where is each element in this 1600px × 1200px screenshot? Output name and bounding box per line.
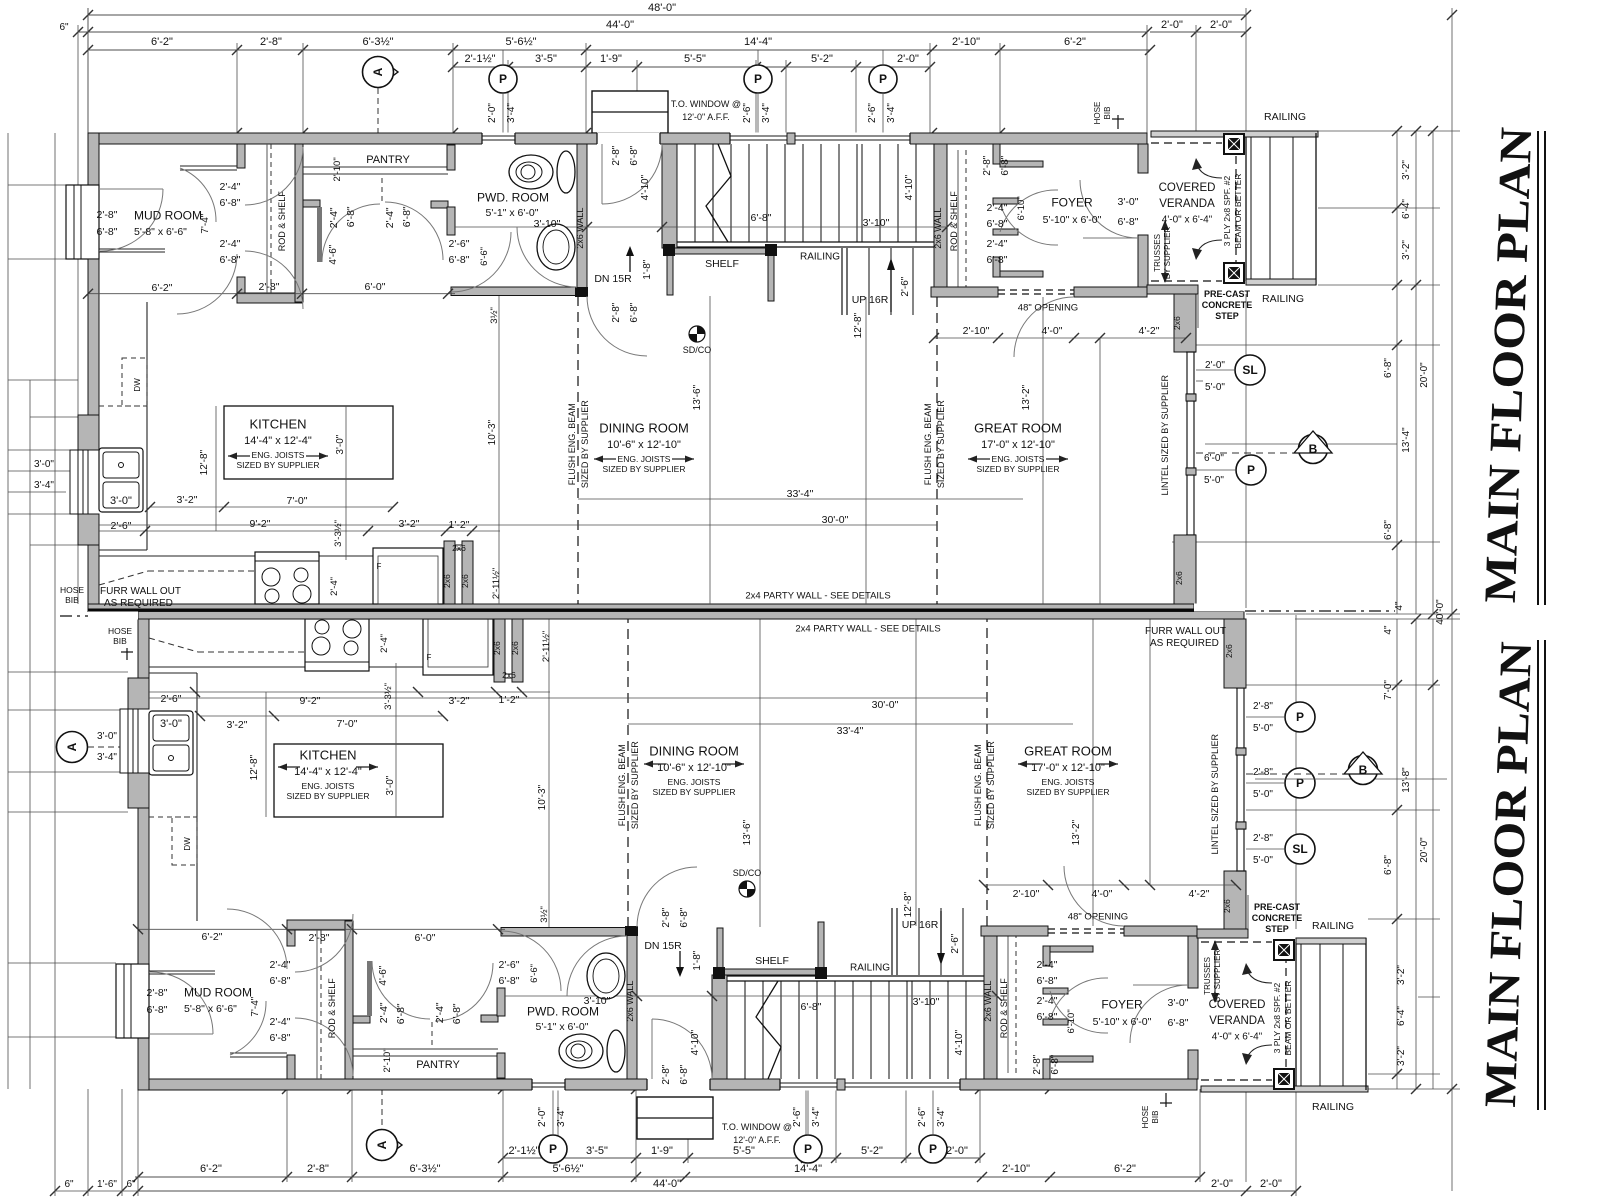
window marker P top unit bbox=[1236, 455, 1266, 485]
plumbing marker P bottom 3 bbox=[919, 1135, 947, 1163]
title main floor plan (bottom) bbox=[1475, 641, 1541, 1108]
svg-text:14'-4": 14'-4" bbox=[794, 1163, 822, 1175]
svg-text:SL: SL bbox=[1292, 842, 1307, 856]
svg-text:12'-0" A.F.F.: 12'-0" A.F.F. bbox=[733, 1135, 780, 1145]
bay window bottom bbox=[637, 1097, 713, 1139]
svg-text:FLUSH ENG. BEAM: FLUSH ENG. BEAM bbox=[923, 403, 933, 485]
svg-text:HOSE: HOSE bbox=[1141, 1106, 1150, 1129]
svg-text:3'-0": 3'-0" bbox=[385, 775, 396, 795]
party wall bottom unit band bbox=[138, 612, 1244, 620]
svg-text:STEP: STEP bbox=[1265, 924, 1289, 934]
svg-text:5'-2": 5'-2" bbox=[811, 53, 833, 65]
svg-text:2x6: 2x6 bbox=[492, 641, 502, 655]
svg-text:4'-6": 4'-6" bbox=[378, 965, 389, 985]
svg-text:2'-0": 2'-0" bbox=[1260, 1178, 1282, 1190]
svg-text:PWD. ROOM: PWD. ROOM bbox=[477, 190, 549, 204]
svg-text:2x6: 2x6 bbox=[502, 670, 516, 680]
svg-text:4'-0": 4'-0" bbox=[1042, 325, 1063, 337]
svg-text:2x6: 2x6 bbox=[442, 574, 452, 588]
svg-text:2'-6": 2'-6" bbox=[111, 520, 132, 532]
svg-text:3'-2": 3'-2" bbox=[227, 719, 248, 731]
svg-text:P: P bbox=[929, 1142, 937, 1156]
svg-text:P: P bbox=[499, 72, 507, 86]
svg-text:RAILING: RAILING bbox=[1264, 111, 1306, 123]
svg-text:SIZED BY SUPPLIER: SIZED BY SUPPLIER bbox=[237, 460, 320, 470]
svg-text:33'-4": 33'-4" bbox=[837, 725, 864, 737]
dimension row 44ft top bbox=[78, 31, 1147, 33]
svg-text:FLUSH ENG. BEAM: FLUSH ENG. BEAM bbox=[567, 403, 577, 485]
svg-text:40'-0": 40'-0" bbox=[1435, 599, 1446, 625]
svg-text:2'-8": 2'-8" bbox=[260, 36, 282, 48]
svg-text:TRUSSES: TRUSSES bbox=[1153, 234, 1162, 272]
svg-text:DN 15R: DN 15R bbox=[644, 940, 682, 952]
svg-text:2x6 WALL: 2x6 WALL bbox=[575, 208, 585, 249]
svg-text:SIZED BY SUPPLIER: SIZED BY SUPPLIER bbox=[1027, 787, 1110, 797]
svg-text:1'-9": 1'-9" bbox=[600, 53, 622, 65]
svg-text:MUD ROOM: MUD ROOM bbox=[184, 985, 252, 999]
svg-text:3'-2": 3'-2" bbox=[399, 518, 420, 530]
svg-text:3'-4": 3'-4" bbox=[97, 752, 117, 763]
svg-text:2'-6": 2'-6" bbox=[917, 1107, 928, 1127]
svg-text:RAILING: RAILING bbox=[800, 252, 840, 263]
svg-text:2x6: 2x6 bbox=[1224, 644, 1234, 658]
svg-text:5'-6½": 5'-6½" bbox=[552, 1163, 583, 1175]
svg-text:2'-6": 2'-6" bbox=[867, 103, 878, 123]
svg-text:2'-8": 2'-8" bbox=[661, 907, 672, 927]
svg-text:HOSE: HOSE bbox=[60, 585, 84, 595]
svg-text:VERANDA: VERANDA bbox=[1159, 198, 1215, 210]
svg-text:3'-5": 3'-5" bbox=[586, 1145, 608, 1157]
svg-text:P: P bbox=[1296, 710, 1304, 724]
svg-text:17'-0" x 12'-10": 17'-0" x 12'-10" bbox=[981, 439, 1055, 451]
svg-text:12'-8": 12'-8" bbox=[903, 891, 914, 917]
extension verticals top strip bbox=[87, 8, 89, 133]
svg-text:2'-4": 2'-4" bbox=[379, 634, 390, 653]
svg-text:6'-8": 6'-8" bbox=[451, 1003, 463, 1024]
joist arrow bbox=[1018, 763, 1040, 765]
svg-text:1'-2": 1'-2" bbox=[449, 519, 470, 531]
svg-text:BEAM OR BETTER: BEAM OR BETTER bbox=[1283, 981, 1293, 1056]
svg-text:B: B bbox=[1359, 763, 1368, 777]
svg-text:1'-8": 1'-8" bbox=[692, 950, 703, 970]
svg-text:5'-2": 5'-2" bbox=[861, 1145, 883, 1157]
dimension row 48ft top bbox=[88, 14, 1246, 16]
svg-text:6'-10": 6'-10" bbox=[1016, 196, 1027, 220]
svg-text:ENG. JOISTS: ENG. JOISTS bbox=[668, 777, 721, 787]
svg-text:13'-2": 13'-2" bbox=[1071, 819, 1082, 845]
svg-text:17'-0" x 12'-10": 17'-0" x 12'-10" bbox=[1031, 762, 1105, 774]
svg-text:3'-2": 3'-2" bbox=[1396, 1046, 1407, 1066]
svg-text:SIZED BY SUPPLIER: SIZED BY SUPPLIER bbox=[936, 400, 946, 488]
svg-text:6'-8": 6'-8" bbox=[1168, 1017, 1189, 1029]
svg-text:3½": 3½" bbox=[489, 307, 500, 324]
svg-text:2'-0": 2'-0" bbox=[487, 103, 498, 123]
svg-text:2'-0": 2'-0" bbox=[1161, 19, 1183, 31]
svg-text:2'-8": 2'-8" bbox=[982, 155, 993, 175]
svg-text:2'-4": 2'-4" bbox=[220, 181, 241, 193]
plumbing marker P bottom 2 bbox=[794, 1135, 822, 1163]
svg-text:5'-6½": 5'-6½" bbox=[505, 36, 536, 48]
svg-text:4'-0": 4'-0" bbox=[1092, 888, 1113, 900]
svg-text:2'-4": 2'-4" bbox=[987, 202, 1008, 214]
svg-text:6'-8": 6'-8" bbox=[1118, 216, 1139, 228]
svg-text:A: A bbox=[371, 67, 385, 76]
bottom dimension rows bbox=[138, 1190, 1296, 1192]
svg-text:3'-10": 3'-10" bbox=[534, 218, 561, 230]
svg-text:1'-9": 1'-9" bbox=[651, 1145, 673, 1157]
svg-text:1'-2": 1'-2" bbox=[499, 694, 520, 706]
svg-text:2'-11½": 2'-11½" bbox=[541, 631, 552, 662]
svg-text:SIZED BY SUPPLIER: SIZED BY SUPPLIER bbox=[603, 464, 686, 474]
svg-text:2'-10": 2'-10" bbox=[1002, 1163, 1030, 1175]
svg-text:2'-4": 2'-4" bbox=[1037, 959, 1058, 971]
svg-text:3'-0": 3'-0" bbox=[1118, 196, 1139, 208]
svg-text:6'-8": 6'-8" bbox=[270, 1032, 291, 1044]
svg-text:2'-10": 2'-10" bbox=[382, 1048, 393, 1072]
svg-text:2'-0": 2'-0" bbox=[1205, 360, 1225, 371]
svg-text:P: P bbox=[1247, 463, 1255, 477]
svg-text:6'-2": 6'-2" bbox=[1064, 36, 1086, 48]
section marker B bottom unit bbox=[1246, 773, 1346, 775]
left dimension columns bbox=[7, 133, 9, 1089]
svg-text:6": 6" bbox=[126, 1179, 136, 1190]
svg-text:4'-10": 4'-10" bbox=[904, 174, 915, 200]
svg-text:2x6: 2x6 bbox=[1172, 316, 1182, 330]
svg-text:4'-10": 4'-10" bbox=[690, 1029, 701, 1055]
svg-text:SL: SL bbox=[1242, 363, 1257, 377]
svg-text:10'-6" x 12'-10": 10'-6" x 12'-10" bbox=[657, 762, 731, 774]
svg-text:A: A bbox=[65, 742, 79, 751]
svg-text:48" OPENING: 48" OPENING bbox=[1018, 302, 1078, 313]
svg-text:6'-2": 6'-2" bbox=[1114, 1163, 1136, 1175]
svg-text:ENG. JOISTS: ENG. JOISTS bbox=[252, 450, 305, 460]
svg-text:5'-0": 5'-0" bbox=[1253, 723, 1273, 734]
svg-text:3'-3½": 3'-3½" bbox=[383, 683, 394, 710]
svg-text:10'-3": 10'-3" bbox=[537, 784, 548, 810]
plumbing marker P top 2 bbox=[744, 65, 772, 93]
svg-text:12'-0" A.F.F.: 12'-0" A.F.F. bbox=[682, 112, 729, 122]
svg-text:4": 4" bbox=[1394, 601, 1405, 611]
svg-text:3'-2": 3'-2" bbox=[1401, 240, 1412, 260]
svg-text:3'-10": 3'-10" bbox=[913, 996, 940, 1008]
svg-text:2'-4": 2'-4" bbox=[384, 207, 396, 228]
svg-text:5'-1" x 6'-0": 5'-1" x 6'-0" bbox=[536, 1021, 589, 1033]
svg-text:6'-8": 6'-8" bbox=[395, 1003, 407, 1024]
svg-text:5'-0": 5'-0" bbox=[1253, 789, 1273, 800]
svg-text:13'-8": 13'-8" bbox=[1401, 767, 1412, 793]
extension verticals bottom strip bbox=[54, 1089, 56, 1196]
svg-text:6'-8": 6'-8" bbox=[629, 145, 640, 165]
svg-text:MUD ROOM: MUD ROOM bbox=[134, 208, 202, 222]
svg-text:2'-8": 2'-8" bbox=[309, 932, 330, 944]
svg-text:DW: DW bbox=[133, 378, 142, 392]
svg-text:6'-3½": 6'-3½" bbox=[409, 1163, 440, 1175]
svg-text:CONCRETE: CONCRETE bbox=[1252, 913, 1303, 923]
svg-text:2'-8": 2'-8" bbox=[147, 987, 168, 999]
svg-text:12'-8": 12'-8" bbox=[853, 312, 864, 338]
svg-text:2x6: 2x6 bbox=[1174, 571, 1184, 585]
svg-text:6'-8": 6'-8" bbox=[1383, 855, 1394, 875]
svg-text:SD/CO: SD/CO bbox=[683, 345, 712, 355]
svg-text:HOSE: HOSE bbox=[108, 626, 132, 636]
bay window top bbox=[592, 91, 668, 133]
svg-text:DN 15R: DN 15R bbox=[594, 273, 632, 285]
svg-text:6'-8": 6'-8" bbox=[987, 254, 1008, 266]
svg-text:PRE-CAST: PRE-CAST bbox=[1204, 289, 1251, 299]
svg-text:SHELF: SHELF bbox=[705, 258, 739, 270]
svg-text:5'-5": 5'-5" bbox=[733, 1145, 755, 1157]
svg-text:RAILING: RAILING bbox=[850, 963, 890, 974]
svg-text:2'-0": 2'-0" bbox=[946, 1145, 968, 1157]
dimension row 4 top bbox=[453, 66, 930, 68]
svg-text:SIZED BY SUPPLIER: SIZED BY SUPPLIER bbox=[986, 741, 996, 829]
svg-text:7'-0": 7'-0" bbox=[287, 495, 308, 507]
svg-text:4'-6": 4'-6" bbox=[328, 244, 339, 264]
svg-text:12'-8": 12'-8" bbox=[249, 754, 260, 780]
svg-text:3'-0": 3'-0" bbox=[34, 459, 54, 470]
section marker A bottom bbox=[382, 1130, 402, 1160]
svg-text:5'-0": 5'-0" bbox=[1204, 475, 1224, 486]
svg-text:2'-6": 2'-6" bbox=[499, 959, 520, 971]
svg-text:FURR WALL OUT: FURR WALL OUT bbox=[1145, 626, 1226, 637]
plumbing marker P top 1 bbox=[489, 65, 517, 93]
svg-text:2'-6": 2'-6" bbox=[950, 933, 961, 953]
svg-text:6'-0": 6'-0" bbox=[1204, 453, 1224, 464]
svg-text:2x6 WALL: 2x6 WALL bbox=[625, 981, 635, 1022]
svg-text:ENG. JOISTS: ENG. JOISTS bbox=[1042, 777, 1095, 787]
svg-text:B: B bbox=[1309, 442, 1318, 456]
svg-text:4": 4" bbox=[1383, 625, 1394, 635]
svg-text:10'-6" x 12'-10": 10'-6" x 12'-10" bbox=[607, 439, 681, 451]
svg-text:13'-6": 13'-6" bbox=[692, 384, 703, 410]
svg-text:3'-5": 3'-5" bbox=[535, 53, 557, 65]
svg-text:2'-1½": 2'-1½" bbox=[464, 53, 495, 65]
svg-text:FURR WALL OUT: FURR WALL OUT bbox=[100, 586, 181, 597]
svg-text:1'-6": 1'-6" bbox=[97, 1179, 117, 1190]
party wall centre black line bbox=[88, 609, 1244, 612]
svg-text:6'-10": 6'-10" bbox=[1066, 1009, 1077, 1033]
svg-text:5'-8" x 6'-6": 5'-8" x 6'-6" bbox=[184, 1003, 237, 1015]
svg-text:5'-8" x 6'-6": 5'-8" x 6'-6" bbox=[134, 226, 187, 238]
svg-text:3'-4": 3'-4" bbox=[34, 480, 54, 491]
svg-text:30'-0": 30'-0" bbox=[872, 699, 899, 711]
svg-text:2'-0": 2'-0" bbox=[897, 53, 919, 65]
svg-text:BEAM OR BETTER: BEAM OR BETTER bbox=[1233, 174, 1243, 249]
svg-text:LINTEL SIZED BY SUPPLIER: LINTEL SIZED BY SUPPLIER bbox=[1210, 733, 1220, 854]
svg-text:6'-4": 6'-4" bbox=[1401, 199, 1412, 219]
svg-text:ROD & SHELF: ROD & SHELF bbox=[277, 191, 287, 252]
svg-text:6'-2": 6'-2" bbox=[200, 1163, 222, 1175]
svg-text:14'-4" x 12'-4": 14'-4" x 12'-4" bbox=[244, 435, 312, 447]
svg-text:FOYER: FOYER bbox=[1101, 997, 1143, 1011]
svg-text:4'-2": 4'-2" bbox=[1189, 888, 1210, 900]
svg-text:P: P bbox=[754, 72, 762, 86]
svg-text:12'-8": 12'-8" bbox=[199, 449, 210, 475]
svg-text:6'-6": 6'-6" bbox=[529, 964, 540, 983]
svg-text:2x4 PARTY WALL - SEE DETAILS: 2x4 PARTY WALL - SEE DETAILS bbox=[745, 590, 890, 601]
svg-text:SIZED BY SUPPLIER: SIZED BY SUPPLIER bbox=[653, 787, 736, 797]
party wall dash-dot left bbox=[60, 615, 138, 617]
svg-text:6'-8": 6'-8" bbox=[449, 254, 470, 266]
svg-text:A: A bbox=[375, 1140, 389, 1149]
svg-text:2'-4": 2'-4" bbox=[987, 238, 1008, 250]
svg-text:2x6: 2x6 bbox=[510, 641, 520, 655]
section marker A top bbox=[378, 57, 398, 87]
svg-text:2'-8": 2'-8" bbox=[611, 302, 622, 322]
svg-text:6'-8": 6'-8" bbox=[401, 206, 413, 227]
svg-text:2'-0": 2'-0" bbox=[537, 1107, 548, 1127]
svg-text:1'-8": 1'-8" bbox=[642, 259, 653, 279]
svg-text:3'-0": 3'-0" bbox=[97, 731, 117, 742]
svg-text:SHELF: SHELF bbox=[755, 955, 789, 967]
svg-text:6'-8": 6'-8" bbox=[345, 206, 357, 227]
svg-text:6'-8": 6'-8" bbox=[629, 302, 640, 322]
svg-text:F: F bbox=[427, 653, 432, 662]
svg-text:PANTRY: PANTRY bbox=[416, 1059, 460, 1071]
svg-text:GREAT ROOM: GREAT ROOM bbox=[974, 421, 1062, 436]
svg-text:2'-10": 2'-10" bbox=[963, 325, 990, 337]
svg-text:6'-8": 6'-8" bbox=[147, 1004, 168, 1016]
svg-text:5'-10" x 6'-0": 5'-10" x 6'-0" bbox=[1043, 214, 1102, 226]
svg-text:VERANDA: VERANDA bbox=[1209, 1015, 1265, 1027]
svg-text:2'-10": 2'-10" bbox=[1013, 888, 1040, 900]
svg-text:BIB: BIB bbox=[65, 595, 79, 605]
svg-text:6'-8": 6'-8" bbox=[220, 197, 241, 209]
svg-text:2'-4": 2'-4" bbox=[434, 1002, 446, 1023]
svg-text:UP 16R: UP 16R bbox=[852, 294, 889, 306]
svg-text:2'-11½": 2'-11½" bbox=[491, 568, 502, 599]
svg-text:3'-3½": 3'-3½" bbox=[333, 520, 344, 547]
svg-text:6'-8": 6'-8" bbox=[499, 975, 520, 987]
svg-text:2'-4": 2'-4" bbox=[220, 238, 241, 250]
svg-text:P: P bbox=[549, 1142, 557, 1156]
joist arrow bbox=[968, 458, 990, 460]
joist arrow bbox=[228, 455, 250, 457]
svg-text:2'-8": 2'-8" bbox=[307, 1163, 329, 1175]
svg-text:7'-4": 7'-4" bbox=[250, 996, 261, 1016]
svg-text:SIZED BY SUPPLIER: SIZED BY SUPPLIER bbox=[287, 791, 370, 801]
svg-text:3'-2": 3'-2" bbox=[1401, 160, 1412, 180]
svg-text:KITCHEN: KITCHEN bbox=[299, 748, 356, 763]
svg-text:RAILING: RAILING bbox=[1312, 920, 1354, 932]
svg-text:FLUSH ENG. BEAM: FLUSH ENG. BEAM bbox=[973, 744, 983, 826]
svg-text:4'-0" x 6'-4": 4'-0" x 6'-4" bbox=[1162, 215, 1213, 226]
svg-text:BY SUPPLIER: BY SUPPLIER bbox=[1163, 227, 1172, 280]
svg-text:3'-0": 3'-0" bbox=[335, 434, 346, 454]
svg-text:6'-8": 6'-8" bbox=[1037, 1011, 1058, 1023]
svg-text:6'-2": 6'-2" bbox=[202, 931, 223, 943]
svg-text:T.O. WINDOW @: T.O. WINDOW @ bbox=[671, 99, 741, 109]
svg-text:2'-6": 2'-6" bbox=[792, 1107, 803, 1127]
svg-text:6'-8": 6'-8" bbox=[1037, 975, 1058, 987]
dimension row veranda top bbox=[1150, 31, 1246, 33]
svg-text:CONCRETE: CONCRETE bbox=[1202, 300, 1253, 310]
svg-text:2'-8": 2'-8" bbox=[611, 145, 622, 165]
svg-text:7'-0": 7'-0" bbox=[337, 718, 358, 730]
plumbing marker P bottom 1 bbox=[539, 1135, 567, 1163]
svg-text:T.O. WINDOW @: T.O. WINDOW @ bbox=[722, 1122, 792, 1132]
svg-text:3'-0": 3'-0" bbox=[1168, 997, 1189, 1009]
svg-text:LINTEL SIZED BY SUPPLIER: LINTEL SIZED BY SUPPLIER bbox=[1160, 374, 1170, 495]
svg-text:STEP: STEP bbox=[1215, 311, 1239, 321]
svg-text:3'-2": 3'-2" bbox=[177, 494, 198, 506]
svg-text:14'-4" x 12'-4": 14'-4" x 12'-4" bbox=[294, 766, 362, 778]
svg-text:5'-0": 5'-0" bbox=[1205, 382, 1225, 393]
svg-text:SD/CO: SD/CO bbox=[733, 868, 762, 878]
svg-text:2x6: 2x6 bbox=[460, 574, 470, 588]
svg-text:2'-0": 2'-0" bbox=[1211, 1178, 1233, 1190]
svg-text:6'-2": 6'-2" bbox=[151, 36, 173, 48]
svg-text:48'-0": 48'-0" bbox=[648, 2, 676, 14]
svg-text:2'-4": 2'-4" bbox=[328, 207, 340, 228]
svg-text:13'-4": 13'-4" bbox=[1401, 427, 1412, 453]
svg-text:ENG. JOISTS: ENG. JOISTS bbox=[302, 781, 355, 791]
svg-text:P: P bbox=[879, 72, 887, 86]
svg-text:7'-4": 7'-4" bbox=[200, 213, 211, 233]
svg-text:5'-10" x 6'-0": 5'-10" x 6'-0" bbox=[1093, 1016, 1152, 1028]
svg-text:ROD & SHELF: ROD & SHELF bbox=[999, 978, 1009, 1039]
svg-text:3'-10": 3'-10" bbox=[863, 217, 890, 229]
svg-text:COVERED: COVERED bbox=[1159, 182, 1216, 194]
svg-text:33'-4": 33'-4" bbox=[787, 488, 814, 500]
svg-text:FLUSH ENG. BEAM: FLUSH ENG. BEAM bbox=[617, 744, 627, 826]
svg-text:ENG. JOISTS: ENG. JOISTS bbox=[992, 454, 1045, 464]
svg-text:6'-8": 6'-8" bbox=[97, 226, 118, 238]
svg-text:3½": 3½" bbox=[539, 906, 550, 923]
svg-text:BIB: BIB bbox=[1103, 107, 1112, 120]
svg-text:4'-10": 4'-10" bbox=[640, 174, 651, 200]
svg-text:6": 6" bbox=[59, 22, 69, 33]
svg-text:3'-0": 3'-0" bbox=[160, 718, 182, 730]
svg-text:2'-8": 2'-8" bbox=[1253, 833, 1273, 844]
svg-text:4'-10": 4'-10" bbox=[954, 1029, 965, 1055]
svg-text:6'-3½": 6'-3½" bbox=[362, 36, 393, 48]
svg-text:30'-0": 30'-0" bbox=[822, 514, 849, 526]
svg-text:2'-6": 2'-6" bbox=[900, 276, 911, 296]
wall row ticks top bbox=[232, 128, 242, 138]
svg-text:2'-10": 2'-10" bbox=[332, 157, 343, 181]
svg-text:P: P bbox=[1296, 776, 1304, 790]
svg-text:2'-8": 2'-8" bbox=[97, 209, 118, 221]
svg-text:RAILING: RAILING bbox=[1312, 1101, 1354, 1113]
svg-text:6'-4": 6'-4" bbox=[1396, 1006, 1407, 1026]
svg-text:44'-0": 44'-0" bbox=[653, 1178, 681, 1190]
svg-text:6'-2": 6'-2" bbox=[152, 282, 173, 294]
window markers bottom unit bbox=[1285, 702, 1315, 732]
svg-text:GREAT ROOM: GREAT ROOM bbox=[1024, 744, 1112, 759]
svg-text:BY SUPPLIER: BY SUPPLIER bbox=[1213, 950, 1222, 1003]
svg-text:3'-4": 3'-4" bbox=[556, 1107, 567, 1127]
svg-text:3'-4": 3'-4" bbox=[886, 103, 897, 123]
svg-text:SIZED BY SUPPLIER: SIZED BY SUPPLIER bbox=[630, 741, 640, 829]
svg-text:ROD & SHELF: ROD & SHELF bbox=[949, 191, 959, 252]
svg-text:3'-10": 3'-10" bbox=[584, 995, 611, 1007]
svg-text:2'-1½": 2'-1½" bbox=[508, 1145, 539, 1157]
svg-text:2'-6": 2'-6" bbox=[161, 693, 182, 705]
svg-text:6'-8": 6'-8" bbox=[801, 1001, 822, 1013]
svg-text:SIZED BY SUPPLIER: SIZED BY SUPPLIER bbox=[977, 464, 1060, 474]
svg-text:3'-4": 3'-4" bbox=[811, 1107, 822, 1127]
svg-text:6'-8": 6'-8" bbox=[270, 975, 291, 987]
svg-text:44'-0": 44'-0" bbox=[606, 19, 634, 31]
svg-text:5'-1" x 6'-0": 5'-1" x 6'-0" bbox=[486, 207, 539, 219]
svg-text:6'-8": 6'-8" bbox=[1000, 155, 1011, 175]
svg-text:6'-8": 6'-8" bbox=[1050, 1054, 1061, 1074]
svg-text:3'-0": 3'-0" bbox=[110, 495, 132, 507]
svg-text:4'-2": 4'-2" bbox=[1139, 325, 1160, 337]
svg-text:SIZED BY SUPPLIER: SIZED BY SUPPLIER bbox=[580, 400, 590, 488]
svg-text:2x6: 2x6 bbox=[452, 543, 466, 553]
